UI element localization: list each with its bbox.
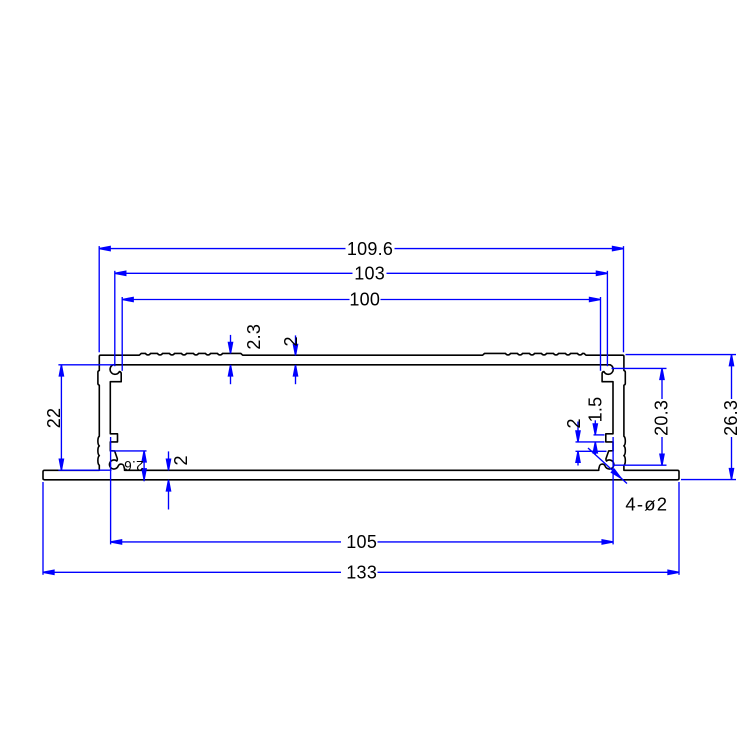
svg-text:26.3: 26.3 [721, 400, 741, 436]
svg-text:22: 22 [44, 408, 64, 429]
dim 2 base plate thickness [166, 451, 170, 509]
dim 22 left inner height [58, 365, 114, 470]
dim 2 right tab gap [576, 422, 607, 466]
svg-text:1.5: 1.5 [585, 397, 605, 423]
blue dimensions [43, 239, 741, 583]
svg-text:4-ø2: 4-ø2 [625, 494, 668, 515]
svg-text:133: 133 [346, 563, 377, 583]
dim 103 [115, 271, 608, 366]
svg-text:2.6: 2.6 [124, 458, 144, 473]
dim 2 top wall thickness [293, 335, 297, 384]
svg-text:109.6: 109.6 [347, 239, 393, 259]
leader 4-Ø2 screw holes [588, 448, 627, 484]
svg-text:2: 2 [281, 336, 301, 346]
svg-text:2.3: 2.3 [244, 324, 264, 350]
svg-text:103: 103 [354, 264, 385, 284]
dim 100 [122, 297, 600, 371]
floor inner line [125, 469, 599, 471]
dim 26.3 overall height [626, 355, 737, 480]
svg-text:100: 100 [349, 290, 380, 310]
dim 133 overall width [43, 482, 679, 575]
dim 2.6 left foot step [110, 451, 147, 481]
right wall inner contour with boss, tab and foot hook [599, 365, 614, 470]
left wall inner contour with boss, tab and foot hook [109, 365, 124, 470]
svg-text:2: 2 [171, 455, 191, 465]
ceiling inner line [113, 364, 610, 366]
svg-text:2: 2 [564, 418, 584, 428]
svg-text:20.3: 20.3 [652, 400, 672, 436]
dim 2.3 top wall thickness at knurl [228, 335, 232, 384]
svg-text:105: 105 [346, 532, 377, 552]
dim 20.3 right inner height [612, 368, 667, 465]
profile outline: extrusion silhouette with base plate [43, 353, 679, 479]
dim 109.6 horizontal overall top width [99, 246, 623, 352]
dim 1.5 right tab height [593, 420, 604, 455]
dim 105 inner width [111, 437, 613, 544]
